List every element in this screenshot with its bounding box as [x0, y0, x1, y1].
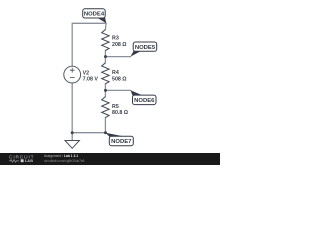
svg-text:R4: R4 — [112, 70, 119, 76]
svg-text:508 Ω: 508 Ω — [112, 77, 127, 83]
svg-text:NODE4: NODE4 — [84, 11, 105, 17]
svg-text:208 Ω: 208 Ω — [112, 42, 127, 48]
svg-text:NODE6: NODE6 — [134, 98, 155, 104]
svg-text:circuitlab.com/c/g5h35uk7b6: circuitlab.com/c/g5h35uk7b6 — [44, 159, 85, 163]
svg-text:NODE5: NODE5 — [135, 45, 156, 51]
svg-text:7.08 V: 7.08 V — [83, 76, 99, 82]
svg-text:80.8 Ω: 80.8 Ω — [112, 110, 129, 116]
svg-text:NODE7: NODE7 — [111, 139, 132, 145]
svg-text:LAB: LAB — [25, 159, 34, 163]
svg-text:R5: R5 — [112, 104, 119, 110]
svg-text:R3: R3 — [112, 35, 119, 41]
svg-text:Assignment / Lab 1 3.1: Assignment / Lab 1 3.1 — [44, 154, 78, 158]
